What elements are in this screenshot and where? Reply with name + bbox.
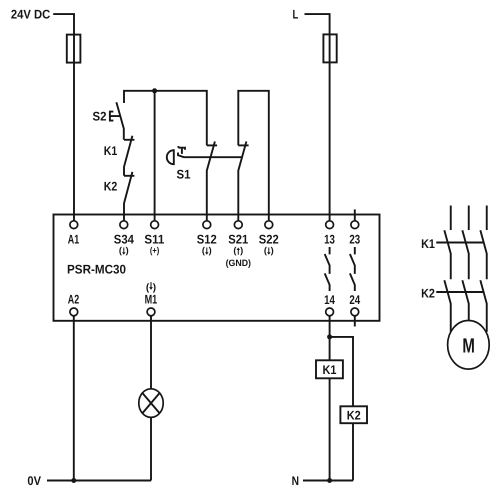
linkage K2 motor contacts — [436, 291, 484, 293]
svg-text:S21: S21 — [228, 233, 248, 247]
pin label A2 — [68, 293, 79, 307]
terminal 23 — [351, 221, 359, 229]
net label 24V DC — [11, 7, 50, 21]
pin sublabel M1 arrow — [146, 282, 156, 293]
svg-text:A2: A2 — [68, 293, 79, 307]
pin label 14 — [324, 293, 335, 307]
wire lamp to 0V line — [150, 417, 152, 480]
label K1 motor contact — [421, 237, 435, 251]
node K1/N junction — [327, 478, 332, 483]
svg-text:K1: K1 — [104, 144, 118, 158]
terminal S34 — [120, 221, 128, 229]
contact S12 blade — [207, 142, 215, 222]
wire 24V DC feed to A1 — [53, 14, 74, 221]
contact K2 blade — [124, 172, 132, 221]
svg-text:S2: S2 — [93, 110, 107, 124]
terminal A1 — [70, 221, 78, 229]
wire 0V rail — [47, 480, 151, 482]
svg-text:S12: S12 — [197, 233, 217, 247]
pin label S21 — [228, 233, 248, 247]
coil K2 — [340, 406, 367, 423]
terminal S12 — [203, 221, 211, 229]
svg-text:S11: S11 — [144, 233, 164, 247]
wire motor phase 2 top stub — [468, 206, 470, 231]
contact K1 phase 2 blade — [462, 230, 468, 279]
svg-text:(+): (+) — [150, 246, 159, 256]
svg-text:(GND): (GND) — [226, 258, 251, 268]
wire M1 down to lamp — [150, 314, 152, 389]
contact K2 phase 3 blade — [480, 280, 486, 332]
pin label S11 — [144, 233, 164, 247]
pin label 23 — [349, 233, 360, 247]
wire S11 to terminal — [154, 91, 156, 221]
contact K1 phase 3 blade — [480, 230, 486, 279]
terminal S11 — [151, 221, 159, 229]
svg-text:M: M — [462, 335, 475, 358]
node S11 junction — [152, 88, 157, 93]
svg-text:K2: K2 — [347, 408, 361, 422]
wire motor phase 1 top stub — [450, 206, 452, 231]
svg-text:PSR-MC30: PSR-MC30 — [67, 262, 126, 276]
switch S1 linkage line to blades — [178, 153, 242, 158]
pin label S12 — [197, 233, 217, 247]
label S2 — [93, 110, 107, 124]
contact K2 phase 1 blade — [444, 280, 450, 332]
svg-text:S1: S1 — [177, 168, 191, 182]
wire A2 down to 0V — [73, 314, 75, 481]
pin label M1 — [145, 293, 158, 307]
contact S21 fixed tick — [238, 144, 248, 146]
switch S1 actuator half-circle — [167, 150, 174, 164]
svg-text:0V: 0V — [27, 474, 41, 488]
terminal S21 — [234, 221, 242, 229]
linkage K1 motor contacts — [436, 242, 484, 244]
pin sublabel S12 arrow — [202, 246, 212, 256]
terminal M1 — [147, 308, 155, 316]
terminal S22 — [265, 221, 273, 229]
switch S1 key symbol — [178, 146, 185, 154]
svg-text:L: L — [293, 7, 299, 21]
pin label 24 — [349, 293, 360, 307]
wire N rail — [303, 480, 353, 482]
svg-text:K1: K1 — [421, 237, 435, 251]
pin label S34 — [114, 233, 134, 247]
net label 0V — [27, 474, 41, 488]
pin label A1 — [68, 233, 79, 247]
actuator symbol S2 — [110, 112, 120, 121]
internal contact 23-24 — [350, 247, 355, 291]
pin sublabel S21 arrow — [233, 246, 243, 256]
motor M — [448, 321, 490, 370]
net label N — [292, 474, 299, 488]
svg-text:K1: K1 — [323, 363, 337, 377]
node 14 branch junction — [327, 334, 332, 339]
svg-text:13: 13 — [324, 233, 335, 247]
svg-text:K2: K2 — [104, 180, 118, 194]
svg-text:24: 24 — [349, 293, 360, 307]
svg-text:M1: M1 — [145, 293, 158, 307]
label S1 — [177, 168, 191, 182]
wire terminal 23 stub — [354, 209, 356, 221]
pin sublabel S11 plus — [150, 246, 159, 256]
contact S21 blade — [238, 142, 246, 222]
svg-text:A1: A1 — [68, 233, 79, 247]
pin sublabel S34 arrow — [119, 246, 129, 256]
svg-text:S22: S22 — [259, 233, 279, 247]
svg-text:N: N — [292, 474, 299, 488]
svg-text:23: 23 — [349, 233, 360, 247]
contact K1 blade — [124, 136, 132, 176]
pin sublabel S22 arrow — [264, 246, 274, 256]
label K1 contact — [104, 144, 118, 158]
pin sublabel S21 GND — [226, 258, 251, 268]
label K2 contact — [104, 180, 118, 194]
terminal 13 — [326, 221, 334, 229]
node A2/0V junction — [71, 478, 76, 483]
lamp P1 circle — [139, 389, 163, 418]
svg-text:K2: K2 — [421, 286, 435, 300]
label PSR-MC30 — [67, 262, 126, 276]
wire 14 down to N — [329, 314, 331, 481]
contact K1 phase 1 blade — [444, 230, 450, 279]
net label L — [293, 7, 299, 21]
svg-text:14: 14 — [324, 293, 335, 307]
wire branch to K2 coil — [330, 337, 353, 481]
svg-text:S34: S34 — [114, 233, 134, 247]
contact S2 (e-stop, blade) — [116, 102, 123, 140]
terminal A2 — [70, 308, 78, 316]
terminal 14 — [326, 308, 334, 316]
internal contact 13-14 — [325, 247, 330, 291]
wire terminal 24 stub — [354, 314, 356, 327]
wire motor phase 3 top stub — [486, 206, 488, 231]
wire S21 loop over to S22 — [238, 91, 268, 221]
wire S11 bus with corners to S2 chain and S12 branch — [124, 91, 207, 146]
fuse F2 — [323, 34, 336, 62]
fuse F1 — [67, 35, 81, 63]
contact K1 fixed tick — [124, 139, 134, 141]
contact K2 phase 2 blade — [462, 280, 468, 320]
contact K2 fixed tick — [124, 175, 134, 177]
wire L feed to terminal 13 — [305, 14, 330, 221]
terminal 24 — [351, 308, 359, 316]
label K2 motor contact — [421, 286, 435, 300]
contact S12 fixed tick — [207, 144, 217, 146]
pin label 13 — [324, 233, 335, 247]
svg-text:24V DC: 24V DC — [11, 7, 50, 21]
coil K1 — [316, 360, 343, 378]
relay module box PSR-MC30 — [54, 215, 380, 321]
pin label S22 — [259, 233, 279, 247]
